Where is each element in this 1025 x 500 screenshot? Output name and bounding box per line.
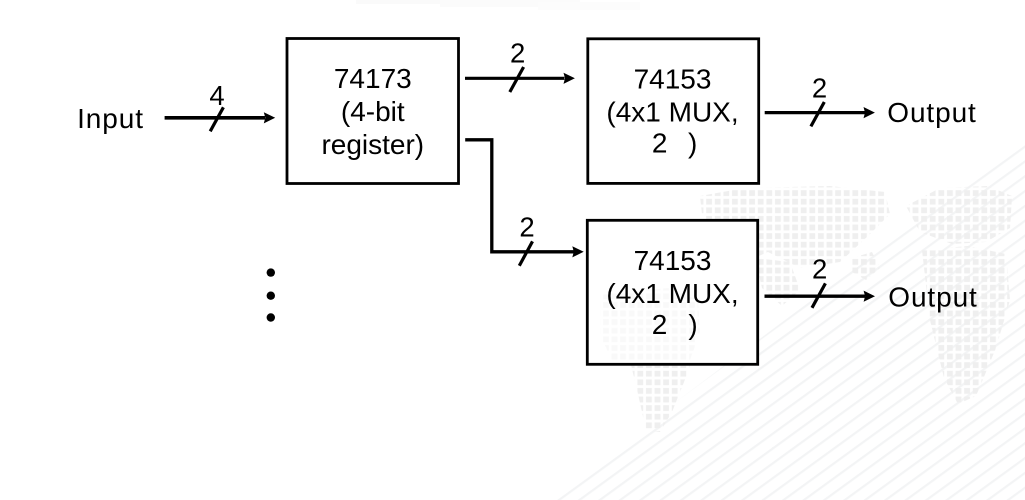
svg-text:2: 2 [519, 211, 534, 242]
svg-text:2: 2 [510, 37, 525, 68]
svg-text:(4x1 MUX,: (4x1 MUX, [606, 278, 738, 309]
svg-text:(4-bit: (4-bit [341, 96, 405, 127]
svg-text:2: 2 [652, 309, 668, 340]
svg-text:2: 2 [812, 73, 827, 104]
svg-text:Output: Output [887, 97, 976, 128]
svg-text:Output: Output [888, 281, 977, 312]
svg-text:register): register) [321, 129, 424, 160]
svg-text:4: 4 [209, 80, 224, 111]
svg-text:Input: Input [77, 103, 144, 134]
svg-text:): ) [688, 309, 697, 340]
svg-text:74153: 74153 [634, 245, 712, 276]
svg-text:74153: 74153 [634, 64, 712, 95]
svg-text:2: 2 [812, 254, 827, 285]
svg-text:): ) [688, 128, 697, 159]
svg-text:74173: 74173 [334, 63, 412, 94]
svg-text:2: 2 [652, 128, 668, 159]
svg-text:(4x1 MUX,: (4x1 MUX, [606, 97, 738, 128]
